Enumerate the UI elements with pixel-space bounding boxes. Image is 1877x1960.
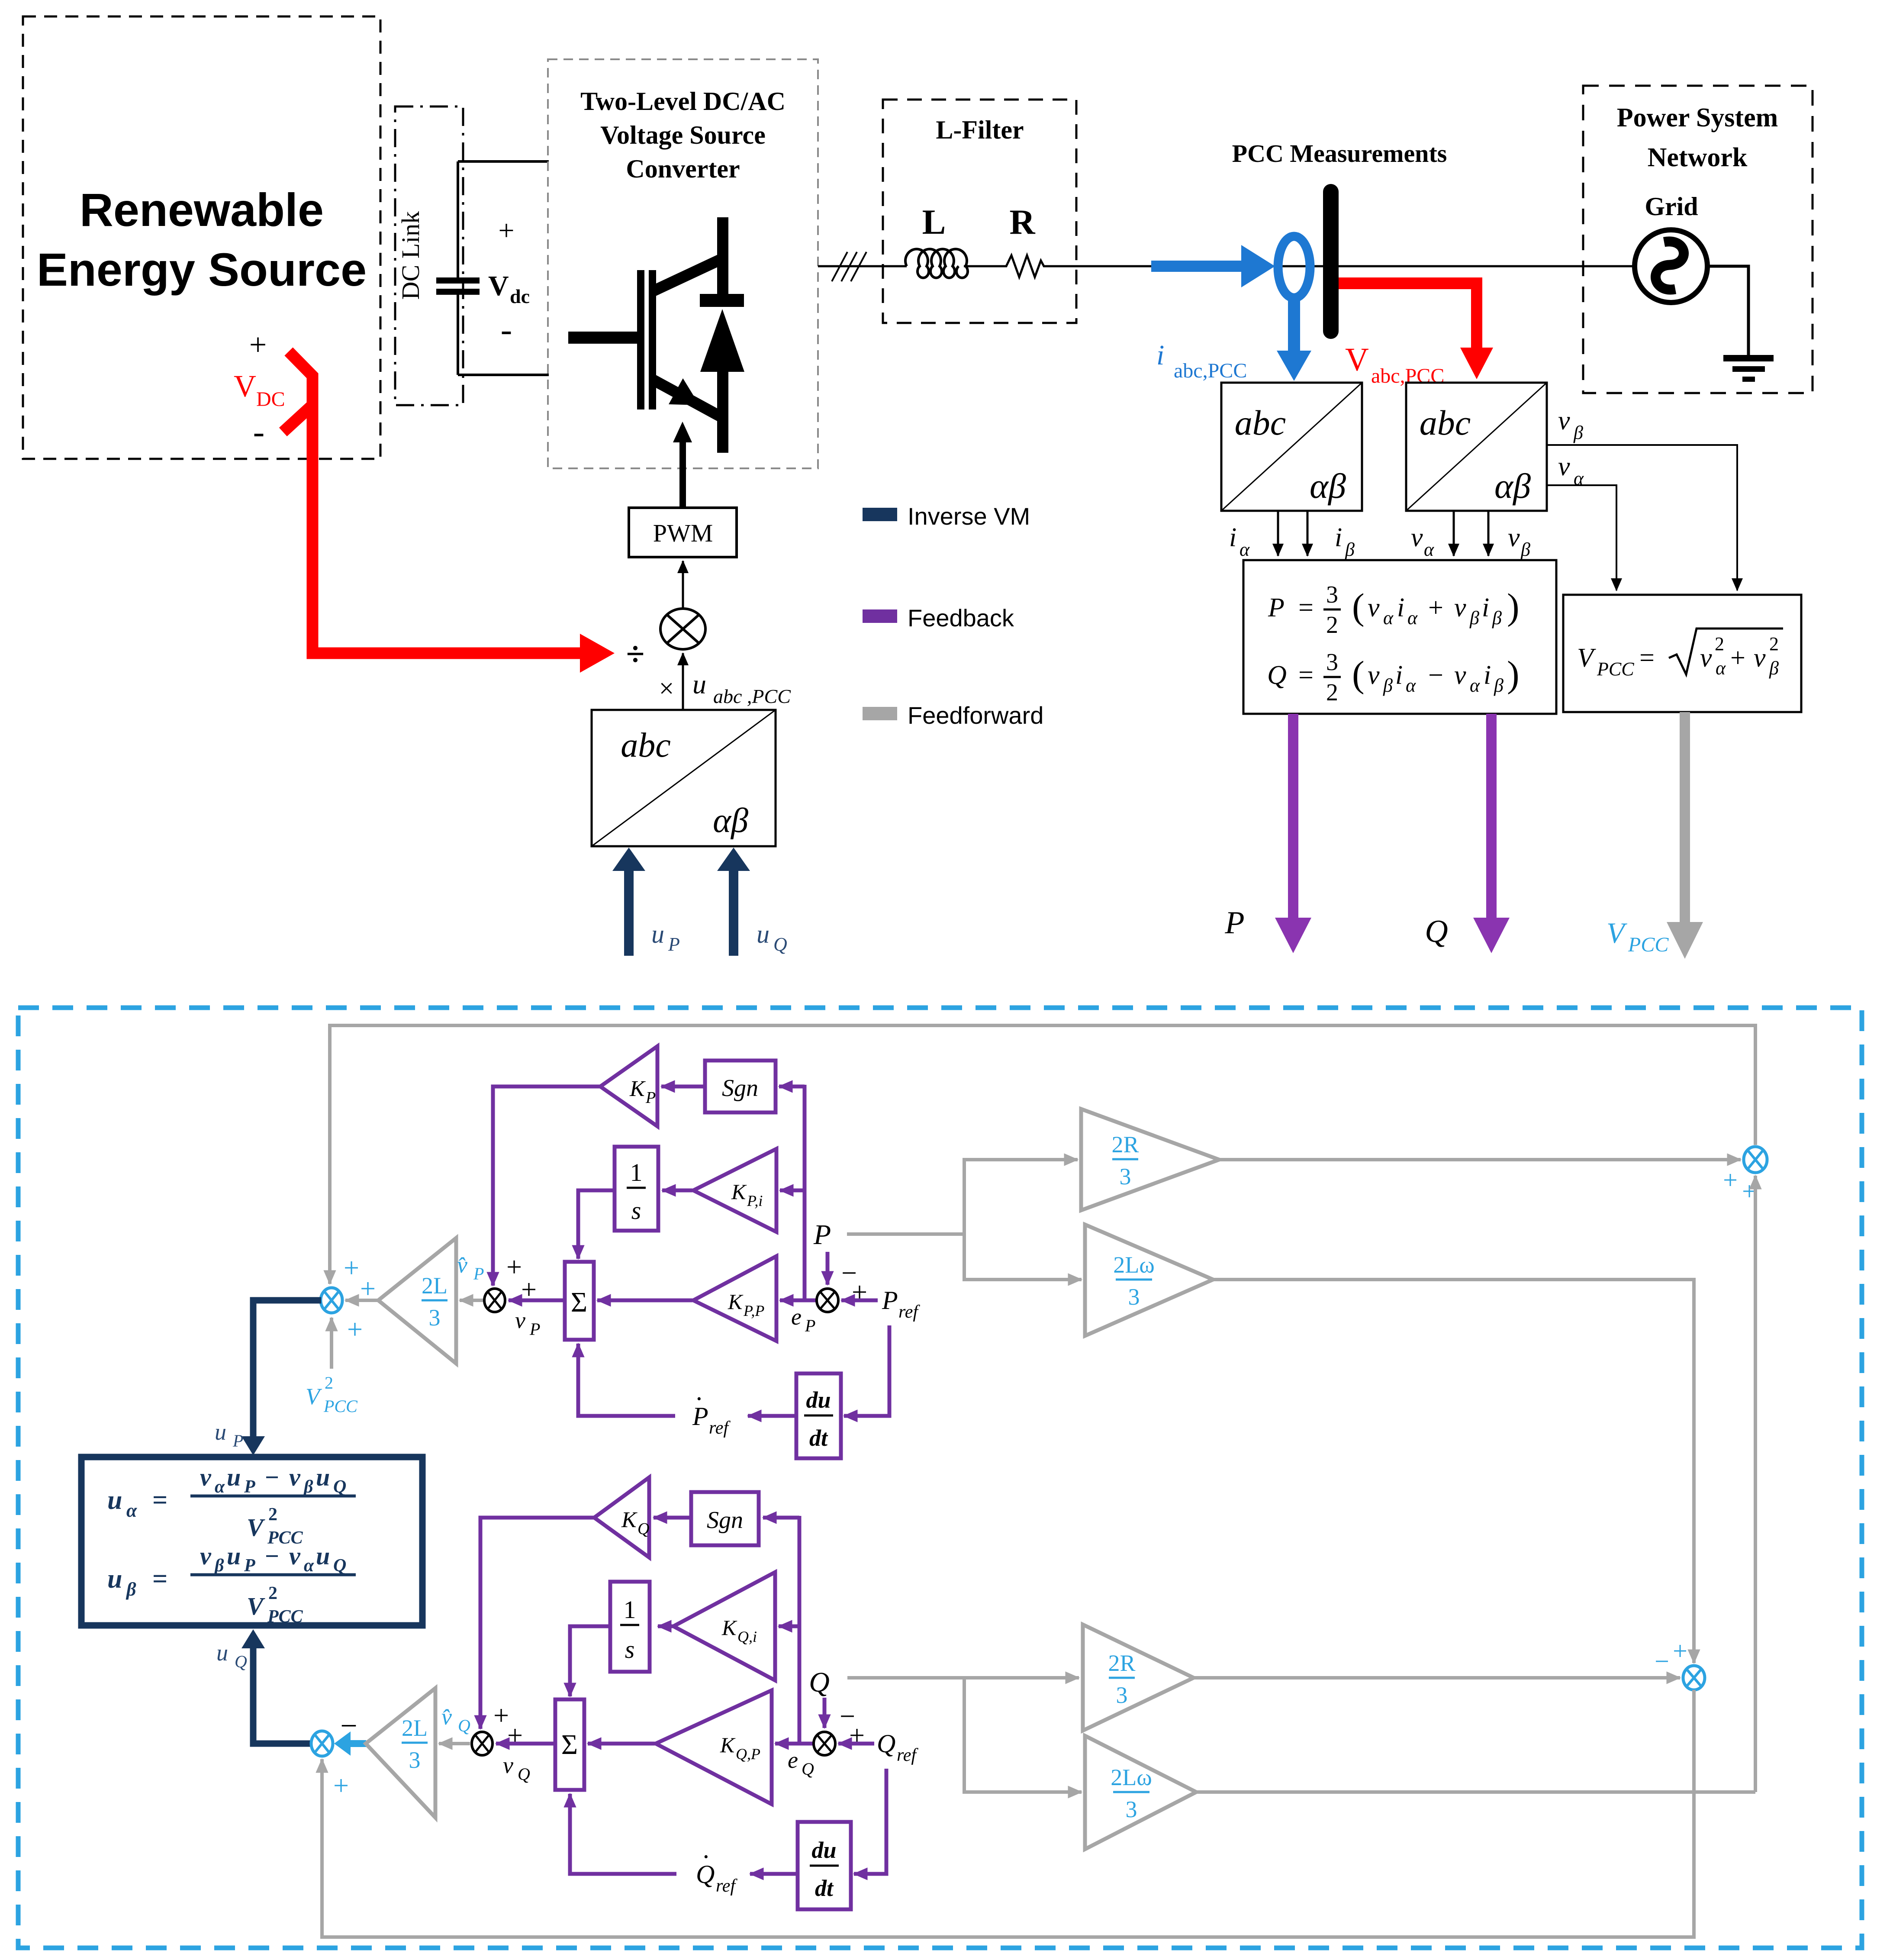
svg-text:αβ: αβ	[1494, 466, 1531, 506]
abc to alphabeta block current	[1221, 383, 1362, 511]
wire Q 2Lw3 to ff P summing riser	[1754, 1176, 1757, 1792]
svg-text:Q: Q	[637, 1520, 649, 1538]
three-phase slashes	[832, 252, 866, 281]
wire ialpha arrow	[1277, 511, 1279, 556]
uP node label	[215, 1419, 243, 1451]
wire VDC red measurement	[283, 351, 615, 673]
svg-text:−: −	[1655, 1647, 1669, 1676]
svg-text:abc,PCC: abc,PCC	[1174, 359, 1247, 382]
svg-text:v: v	[1558, 452, 1570, 481]
svg-text:P: P	[244, 1556, 255, 1576]
svg-text:V: V	[488, 270, 509, 302]
wire ibeta arrow	[1307, 511, 1309, 556]
wire vbeta to VPCC block	[1547, 445, 1737, 590]
ground	[1723, 355, 1774, 382]
gain 2Lw/3 P	[1085, 1225, 1213, 1336]
gain 2R/3 P	[1081, 1109, 1219, 1210]
svg-text:β: β	[1769, 658, 1779, 679]
svg-text:Q: Q	[773, 934, 787, 955]
Q formula	[1267, 649, 1520, 706]
wire integrator to sigma Q	[570, 1626, 610, 1696]
wire Pref to eP node	[841, 1299, 878, 1302]
svg-text:+: +	[1723, 1166, 1738, 1194]
wire abc box to multiplier	[682, 653, 684, 710]
svg-text:1: 1	[630, 1158, 643, 1186]
wire KQP to sigma Q	[588, 1742, 655, 1746]
capacitor Vdc	[436, 161, 480, 375]
svg-text:P: P	[805, 1316, 815, 1335]
wire KP to vP node	[493, 1086, 600, 1286]
svg-text:3: 3	[1116, 1682, 1128, 1708]
svg-text:αβ: αβ	[713, 802, 748, 840]
svg-text:2L: 2L	[422, 1273, 448, 1299]
svg-text:v̂: v̂	[441, 1704, 452, 1730]
plus labels vQ node	[493, 1700, 523, 1750]
svg-text:2R: 2R	[1111, 1132, 1139, 1157]
svg-text:V: V	[247, 1513, 265, 1541]
converter title	[580, 87, 786, 183]
plus labels P summing	[344, 1252, 376, 1344]
arrow current flow blue	[1151, 245, 1275, 287]
svg-text:Q: Q	[333, 1477, 346, 1497]
svg-text:3: 3	[429, 1305, 441, 1331]
wire Qdotref to sigma Q bottom	[570, 1794, 676, 1874]
svg-text:V: V	[1577, 643, 1596, 673]
wire converter to filter	[818, 265, 907, 268]
VPCC output label	[1607, 916, 1669, 956]
svg-text:α: α	[1424, 539, 1434, 560]
vQ label	[503, 1752, 530, 1784]
vP label	[515, 1307, 540, 1339]
svg-text:Q: Q	[1267, 661, 1287, 690]
svg-text:v: v	[1754, 643, 1766, 673]
svg-text:i: i	[1482, 593, 1489, 622]
wire sigma to vP node	[509, 1299, 565, 1302]
svg-text:α: α	[1470, 675, 1480, 696]
svg-text:Q: Q	[809, 1667, 830, 1698]
arrow i abc PCC blue down	[1277, 296, 1311, 381]
svg-text:2Lω: 2Lω	[1111, 1764, 1152, 1790]
svg-text:β: β	[1345, 539, 1355, 560]
svg-text:ref: ref	[898, 1302, 920, 1322]
Qdot ref label	[696, 1846, 737, 1896]
eP label	[791, 1304, 815, 1335]
wire eP to Sgn	[779, 1085, 805, 1089]
svg-text:i: i	[1229, 523, 1236, 552]
svg-text:K: K	[728, 1289, 744, 1314]
wire 2R3Q to Q ff summing	[1194, 1676, 1680, 1680]
svg-text:2: 2	[1715, 633, 1724, 654]
busbar PCC	[1323, 184, 1339, 339]
svg-text:Two-Level DC/AC: Two-Level DC/AC	[580, 87, 786, 116]
svg-text:u: u	[316, 1463, 330, 1491]
svg-text:v: v	[503, 1752, 513, 1778]
wire Sgn to KP	[661, 1085, 705, 1089]
svg-text:Q: Q	[235, 1652, 247, 1671]
VPCC squared label	[306, 1373, 358, 1416]
svg-text:u: u	[107, 1564, 122, 1594]
wire uQ navy	[241, 1629, 311, 1744]
vhat P label	[457, 1252, 484, 1283]
svg-text:β: β	[214, 1556, 224, 1576]
svg-text:u: u	[692, 669, 706, 700]
wire KPP to sigma P	[597, 1299, 692, 1302]
svg-text:i: i	[1397, 593, 1404, 622]
Qref label	[877, 1729, 918, 1765]
svg-text:(: (	[1352, 586, 1365, 627]
u alpha formula	[107, 1463, 356, 1548]
svg-text:PCC: PCC	[323, 1396, 358, 1416]
svg-text:e: e	[788, 1747, 798, 1773]
svg-text:β: β	[1520, 539, 1530, 560]
wire V abc PCC red measurement	[1339, 277, 1493, 379]
svg-text:Q: Q	[458, 1716, 470, 1735]
wire uP navy	[241, 1300, 321, 1455]
svg-text:β: β	[126, 1579, 136, 1600]
svg-text:K: K	[629, 1077, 646, 1101]
wire KQi to integrator Q	[658, 1625, 673, 1628]
svg-text:α: α	[1716, 658, 1726, 679]
svg-text:v: v	[1558, 406, 1570, 435]
wire eQ riser	[798, 1516, 802, 1744]
wire 2Lw3P to Q ff summing	[1213, 1280, 1694, 1663]
svg-text:Sgn: Sgn	[722, 1075, 758, 1102]
gain 2R/3 Q	[1083, 1625, 1194, 1731]
legend feedforward	[863, 702, 1043, 729]
svg-text:K: K	[621, 1508, 637, 1532]
legend inverse VM	[863, 503, 1030, 530]
svg-text:i: i	[1395, 661, 1403, 690]
svg-text:v: v	[1411, 523, 1423, 552]
sigma block Q	[555, 1699, 584, 1790]
svg-text:P: P	[1268, 593, 1285, 622]
svg-text:P: P	[882, 1286, 898, 1315]
Sgn block P	[705, 1061, 776, 1112]
svg-text:β: β	[1492, 607, 1502, 629]
svg-text:+: +	[333, 1770, 349, 1801]
inverse VM formula block	[81, 1457, 422, 1625]
svg-text:-: -	[501, 311, 512, 349]
u abc,PCC label	[692, 669, 791, 707]
gain 2Lw/3 Q	[1085, 1736, 1196, 1849]
arrow uQ input navy	[717, 848, 750, 956]
svg-text:ref: ref	[716, 1876, 737, 1896]
svg-text:Q: Q	[802, 1759, 814, 1779]
wire Q feedforward tap	[847, 1676, 1079, 1680]
svg-text:PCC Measurements: PCC Measurements	[1232, 139, 1447, 168]
svg-text:Q,i: Q,i	[737, 1628, 757, 1645]
diode antiparallel	[700, 294, 744, 372]
PWM block	[629, 508, 737, 557]
svg-text:Energy Source: Energy Source	[37, 243, 367, 296]
wire multiplier to PWM	[682, 561, 684, 608]
svg-text:Sgn: Sgn	[707, 1507, 743, 1534]
power system network title	[1617, 103, 1778, 172]
gain KQ	[594, 1477, 649, 1557]
svg-text:2Lω: 2Lω	[1113, 1252, 1155, 1278]
svg-text:3: 3	[1128, 1284, 1140, 1310]
svg-text:=: =	[152, 1564, 167, 1594]
gain KQP	[656, 1690, 772, 1804]
wire eP riser	[803, 1085, 807, 1300]
svg-text:u: u	[316, 1542, 330, 1570]
svg-text:3: 3	[1326, 649, 1338, 676]
controller dashed border	[18, 1008, 1862, 1948]
i abc,PCC label	[1156, 339, 1247, 382]
svg-text:du: du	[806, 1387, 831, 1413]
uQ label	[757, 920, 787, 955]
svg-text:du: du	[811, 1837, 836, 1863]
svg-text:K: K	[731, 1180, 747, 1204]
VPCC computation block	[1563, 595, 1801, 712]
svg-text:α: α	[1240, 539, 1250, 560]
svg-text:β: β	[1573, 422, 1583, 443]
svg-text:2: 2	[325, 1373, 333, 1393]
svg-text:+: +	[1673, 1637, 1687, 1665]
renewable energy source box	[23, 16, 380, 459]
Pdot ref label	[692, 1388, 731, 1438]
wire eP node to KPP	[780, 1299, 816, 1302]
svg-text:Network: Network	[1648, 143, 1748, 172]
VDC label red	[234, 369, 285, 411]
svg-text:ref: ref	[897, 1745, 918, 1765]
svg-text:R: R	[1009, 202, 1035, 242]
i beta label	[1335, 523, 1355, 560]
wire feedforward top return	[330, 1025, 1755, 1284]
wire P tap riser	[963, 1160, 966, 1280]
svg-text:u: u	[107, 1486, 122, 1515]
wire vbeta arrow	[1487, 511, 1490, 556]
svg-text:v: v	[1700, 643, 1712, 673]
svg-text:3: 3	[1326, 581, 1338, 608]
svg-text:v: v	[515, 1307, 525, 1333]
svg-text:V: V	[1345, 342, 1369, 378]
resistor R	[1000, 255, 1050, 277]
svg-text:PCC: PCC	[1628, 933, 1669, 956]
svg-text:abc: abc	[1420, 403, 1471, 442]
svg-text:u: u	[651, 920, 664, 948]
svg-text:Q,P: Q,P	[736, 1745, 760, 1763]
svg-text:L: L	[922, 202, 946, 242]
gain KPi	[693, 1149, 776, 1232]
svg-text:+: +	[852, 1277, 867, 1307]
wire 2Lw3Q to riser	[1196, 1790, 1755, 1794]
vhat Q label	[441, 1704, 470, 1735]
svg-text:Σ: Σ	[561, 1729, 578, 1760]
svg-text:): )	[1507, 586, 1520, 627]
svg-text:v: v	[1368, 661, 1380, 690]
svg-text:+: +	[849, 1720, 865, 1750]
VPCC formula	[1577, 629, 1783, 680]
svg-text:Inverse VM: Inverse VM	[908, 503, 1030, 530]
wire 2L3P to summing	[345, 1299, 377, 1302]
wire eP to KPi	[780, 1189, 805, 1193]
sigma block P	[565, 1262, 594, 1340]
svg-text:u: u	[227, 1463, 241, 1491]
arrow VPCC output gray	[1667, 712, 1703, 959]
wire dudt to Pdotref	[748, 1414, 796, 1418]
svg-text:×: ×	[659, 674, 674, 703]
svg-text:3: 3	[409, 1747, 421, 1773]
svg-text:Converter: Converter	[626, 155, 740, 183]
transistor IGBT	[568, 217, 728, 453]
summing node eQ	[814, 1732, 835, 1755]
svg-text:α: α	[126, 1500, 137, 1521]
plus labels vP node	[506, 1251, 537, 1305]
svg-text:=: =	[1298, 661, 1314, 690]
svg-text:s: s	[631, 1196, 641, 1225]
u beta formula	[107, 1542, 356, 1627]
wire valpha to VPCC block	[1547, 485, 1616, 590]
svg-text:+: +	[1428, 593, 1443, 622]
renewable energy source label	[37, 184, 367, 296]
svg-text:abc ,PCC: abc ,PCC	[713, 685, 791, 707]
wire Pref to dudt P	[844, 1325, 889, 1416]
svg-text:Grid: Grid	[1645, 192, 1698, 221]
svg-text:2: 2	[1326, 679, 1338, 706]
svg-text:abc: abc	[1235, 403, 1286, 442]
svg-text:v̂: v̂	[457, 1252, 467, 1278]
svg-text:PCC: PCC	[1597, 658, 1634, 680]
svg-text:+: +	[344, 1252, 359, 1283]
wire Sgn to KQ	[654, 1516, 691, 1520]
svg-text:PCC: PCC	[267, 1607, 303, 1627]
wire Q to eQ node	[823, 1698, 827, 1728]
svg-text:v: v	[289, 1542, 301, 1570]
svg-text:abc: abc	[621, 726, 671, 764]
svg-text:i: i	[1484, 661, 1491, 690]
arrow uP input navy	[612, 848, 645, 956]
Pref label	[882, 1286, 920, 1322]
svg-text:β: β	[303, 1477, 313, 1497]
svg-text:α: α	[304, 1556, 314, 1576]
svg-text:K: K	[720, 1733, 736, 1757]
svg-text:2: 2	[268, 1505, 277, 1525]
derivative block P	[796, 1373, 841, 1458]
svg-text:s: s	[625, 1635, 635, 1663]
uQ node label	[216, 1640, 247, 1671]
wire Q tap riser	[963, 1676, 966, 1792]
svg-text:dt: dt	[815, 1875, 834, 1901]
wire Qref to eQ node	[838, 1742, 874, 1746]
svg-text:Voltage Source: Voltage Source	[600, 121, 766, 149]
wire VPCC2 input stub	[330, 1318, 333, 1369]
current transformer CT	[1278, 236, 1310, 298]
grid source symbol	[1635, 230, 1707, 303]
svg-text:Power System: Power System	[1617, 103, 1778, 132]
wire grid to ground	[1707, 266, 1748, 355]
svg-text:2: 2	[1326, 612, 1338, 638]
summing node vP black	[484, 1289, 505, 1312]
svg-text:-: -	[253, 413, 265, 451]
svg-text:Σ: Σ	[571, 1286, 587, 1318]
derivative block Q	[798, 1822, 851, 1909]
svg-text:DC Link: DC Link	[396, 211, 425, 300]
svg-text:v: v	[1454, 661, 1466, 690]
wire L to R	[970, 265, 1000, 268]
svg-text:dt: dt	[809, 1425, 828, 1451]
svg-text:Q: Q	[518, 1764, 530, 1784]
svg-text:i: i	[1335, 523, 1342, 552]
svg-text:v: v	[1454, 593, 1466, 622]
V abc,PCC label	[1345, 342, 1444, 387]
v alpha tap label	[1558, 452, 1584, 489]
svg-text:+: +	[347, 1314, 363, 1344]
svg-text:e: e	[791, 1304, 802, 1330]
wire eQ node to KQP	[775, 1742, 813, 1746]
plus labels ff P	[1723, 1166, 1757, 1206]
svg-text:V: V	[247, 1592, 265, 1620]
svg-text:+: +	[506, 1251, 522, 1282]
gain KQi	[673, 1572, 775, 1680]
svg-text:=: =	[1639, 643, 1655, 673]
svg-text:P: P	[813, 1219, 831, 1251]
svg-text:α: α	[215, 1477, 225, 1497]
svg-text:β: β	[1383, 675, 1393, 696]
v alpha label	[1411, 523, 1434, 560]
svg-text:abc,PCC: abc,PCC	[1371, 364, 1444, 387]
svg-text:2L: 2L	[402, 1715, 428, 1741]
abc to alphabeta block voltage	[1406, 383, 1547, 511]
summing node eP	[817, 1289, 838, 1312]
svg-text:V: V	[234, 369, 256, 403]
svg-text:β: β	[1469, 607, 1479, 629]
v beta label	[1508, 523, 1530, 560]
wire vQ node to 2L3Q	[439, 1742, 470, 1745]
svg-text:u: u	[215, 1419, 226, 1445]
Sgn block Q	[691, 1492, 759, 1545]
svg-text:L-Filter: L-Filter	[936, 116, 1024, 144]
svg-text:α: α	[1406, 675, 1416, 696]
wire ff Q output bottom return	[322, 1690, 1694, 1937]
svg-text:β: β	[1494, 675, 1504, 696]
multiplier node	[660, 609, 705, 649]
svg-text:ref: ref	[709, 1418, 731, 1438]
svg-text:P: P	[232, 1431, 243, 1451]
wire eQ to Sgn	[763, 1516, 799, 1520]
converter box	[548, 59, 818, 468]
arrow P output purple	[1275, 714, 1311, 953]
wire valpha arrow	[1453, 511, 1455, 556]
integrator 1/s Q	[610, 1582, 650, 1672]
svg-text:P: P	[668, 934, 680, 955]
svg-text:P,P: P,P	[743, 1302, 764, 1319]
v beta tap label	[1558, 406, 1583, 443]
svg-text:v: v	[1368, 593, 1380, 622]
wire P to eP node	[826, 1252, 830, 1285]
svg-text:3: 3	[1120, 1164, 1131, 1190]
wire dc link top	[458, 160, 549, 163]
abc to alphabeta converter control box	[592, 710, 776, 846]
summing node ff Q cyan	[1683, 1666, 1705, 1690]
gain KPP	[693, 1256, 776, 1341]
svg-text:v: v	[289, 1463, 301, 1491]
svg-text:Feedback: Feedback	[908, 604, 1014, 632]
svg-text:PWM: PWM	[653, 519, 713, 547]
svg-text:−: −	[1428, 661, 1443, 690]
wire Q tap to 2Lw3	[963, 1790, 1082, 1794]
svg-text:α: α	[1383, 607, 1394, 629]
arrow 2L3Q to summing cyan	[334, 1731, 366, 1756]
inductor L	[905, 249, 968, 277]
legend feedback	[863, 604, 1014, 632]
wire vP node to 2L3P	[460, 1299, 483, 1302]
wire P feedforward tap	[847, 1232, 964, 1236]
svg-text:P,i: P,i	[747, 1192, 763, 1209]
PQ computation block	[1243, 560, 1556, 714]
wire sigma to vQ node	[496, 1742, 555, 1746]
svg-text:Q: Q	[333, 1556, 346, 1576]
